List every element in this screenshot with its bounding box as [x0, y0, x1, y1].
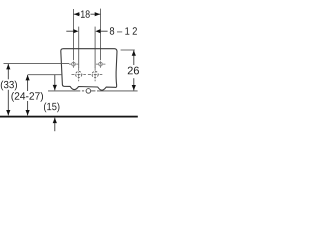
fixing hole right crosshair: [96, 61, 106, 69]
label 8-12: [110, 27, 137, 34]
dimension stem (33): [7, 64, 9, 115]
dimension stem (24-27): [27, 75, 29, 115]
arrowhead down of dim (15): [53, 85, 57, 90]
extension line left connection axis: [78, 27, 80, 68]
arrowhead right-pointing of dim 8-12: [73, 29, 78, 33]
outlet symbol circle on centerline: [86, 89, 91, 94]
arrowhead down of dim (24-27): [26, 110, 30, 115]
label 18: [80, 10, 91, 18]
outlet centerline (dash-dot): [48, 90, 80, 92]
dimension stem 26: [133, 50, 135, 90]
floor line: [0, 116, 138, 118]
dimension leader 8-12 right: [100, 30, 107, 32]
centerline segment through outlet: [86, 90, 96, 92]
extension line top of dim 26: [121, 49, 135, 51]
arrowhead up of dim (24-27): [26, 75, 30, 80]
reference line (33) at fixing hole axis: [4, 63, 70, 65]
dimension stem (15) upper: [54, 75, 56, 91]
centerline right segment: [97, 90, 138, 92]
arrowhead down of dim (33): [6, 110, 10, 115]
extension line right fixing hole: [100, 9, 102, 61]
label (15): [44, 102, 59, 112]
connection opening left (dashed circle): [72, 68, 86, 81]
arrowhead up of dim (33): [6, 64, 10, 69]
arrowhead up of dim (15) at floor: [53, 118, 57, 123]
reference line (24-27) at connection axis: [28, 74, 62, 76]
dimension stem (15) lower: [54, 118, 56, 132]
dimension leader 8-12 left: [66, 30, 74, 32]
centerline dot: [82, 90, 84, 92]
fixing hole left crosshair: [69, 61, 78, 69]
extension line right connection axis: [94, 27, 96, 68]
arrowhead left-pointing of dim 8-12: [95, 29, 100, 33]
arrowhead up of dim 26: [132, 50, 136, 55]
connection opening right (dashed circle): [88, 68, 102, 81]
label (33): [0, 79, 17, 90]
arrowhead right of dim 18: [95, 12, 100, 16]
label (24-27): [11, 91, 43, 101]
dimension line 18: [74, 13, 101, 15]
extension line left fixing hole: [73, 9, 75, 60]
arrowhead left of dim 18: [74, 12, 79, 16]
ceramic body outline: [61, 49, 117, 90]
arrowhead down of dim 26: [132, 85, 136, 90]
label 26: [127, 65, 140, 78]
